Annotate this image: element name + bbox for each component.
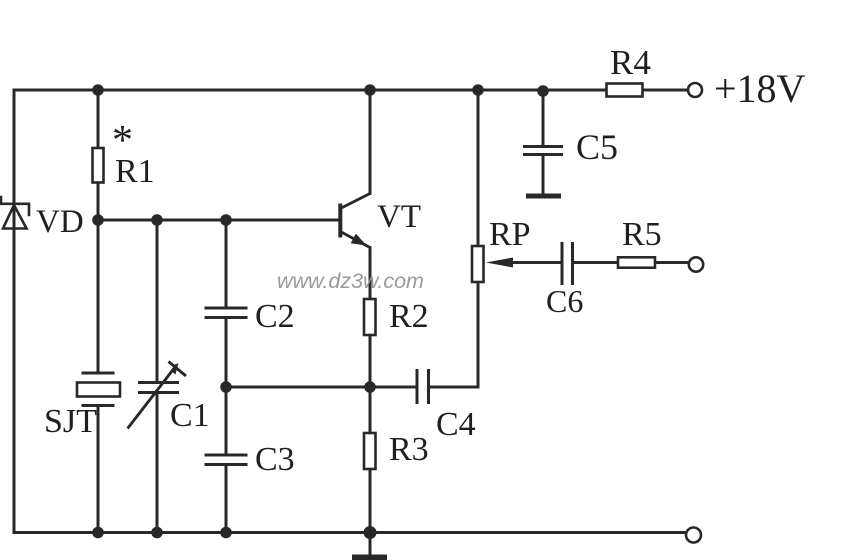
svg-text:R5: R5: [622, 216, 662, 253]
svg-text:R1: R1: [115, 153, 155, 190]
svg-text:VD: VD: [36, 204, 84, 240]
svg-text:+18V: +18V: [714, 66, 806, 111]
svg-text:SJT: SJT: [44, 403, 97, 440]
svg-text:R2: R2: [389, 298, 429, 335]
svg-text:C6: C6: [546, 283, 583, 319]
svg-text:C4: C4: [436, 406, 476, 443]
svg-text:C3: C3: [255, 441, 295, 478]
svg-text:RP: RP: [489, 216, 531, 253]
svg-text:VT: VT: [377, 199, 421, 235]
svg-text:C1: C1: [170, 397, 210, 434]
svg-text:C2: C2: [255, 298, 295, 335]
svg-text:R3: R3: [389, 431, 429, 468]
svg-text:C5: C5: [576, 127, 618, 167]
svg-text:R4: R4: [610, 43, 651, 82]
svg-text:www.dz3w.com: www.dz3w.com: [277, 269, 424, 293]
